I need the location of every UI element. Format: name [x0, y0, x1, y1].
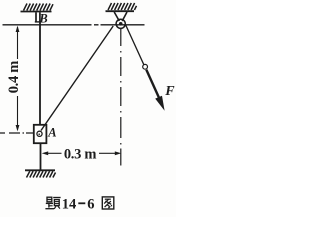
- svg-text:A: A: [47, 125, 56, 139]
- svg-text:0.4 m: 0.4 m: [6, 61, 22, 94]
- svg-text:14: 14: [62, 197, 77, 213]
- svg-text:B: B: [38, 11, 47, 25]
- svg-text:0.3 m: 0.3 m: [64, 146, 97, 162]
- svg-text:F: F: [164, 84, 175, 99]
- svg-text:6: 6: [87, 197, 94, 213]
